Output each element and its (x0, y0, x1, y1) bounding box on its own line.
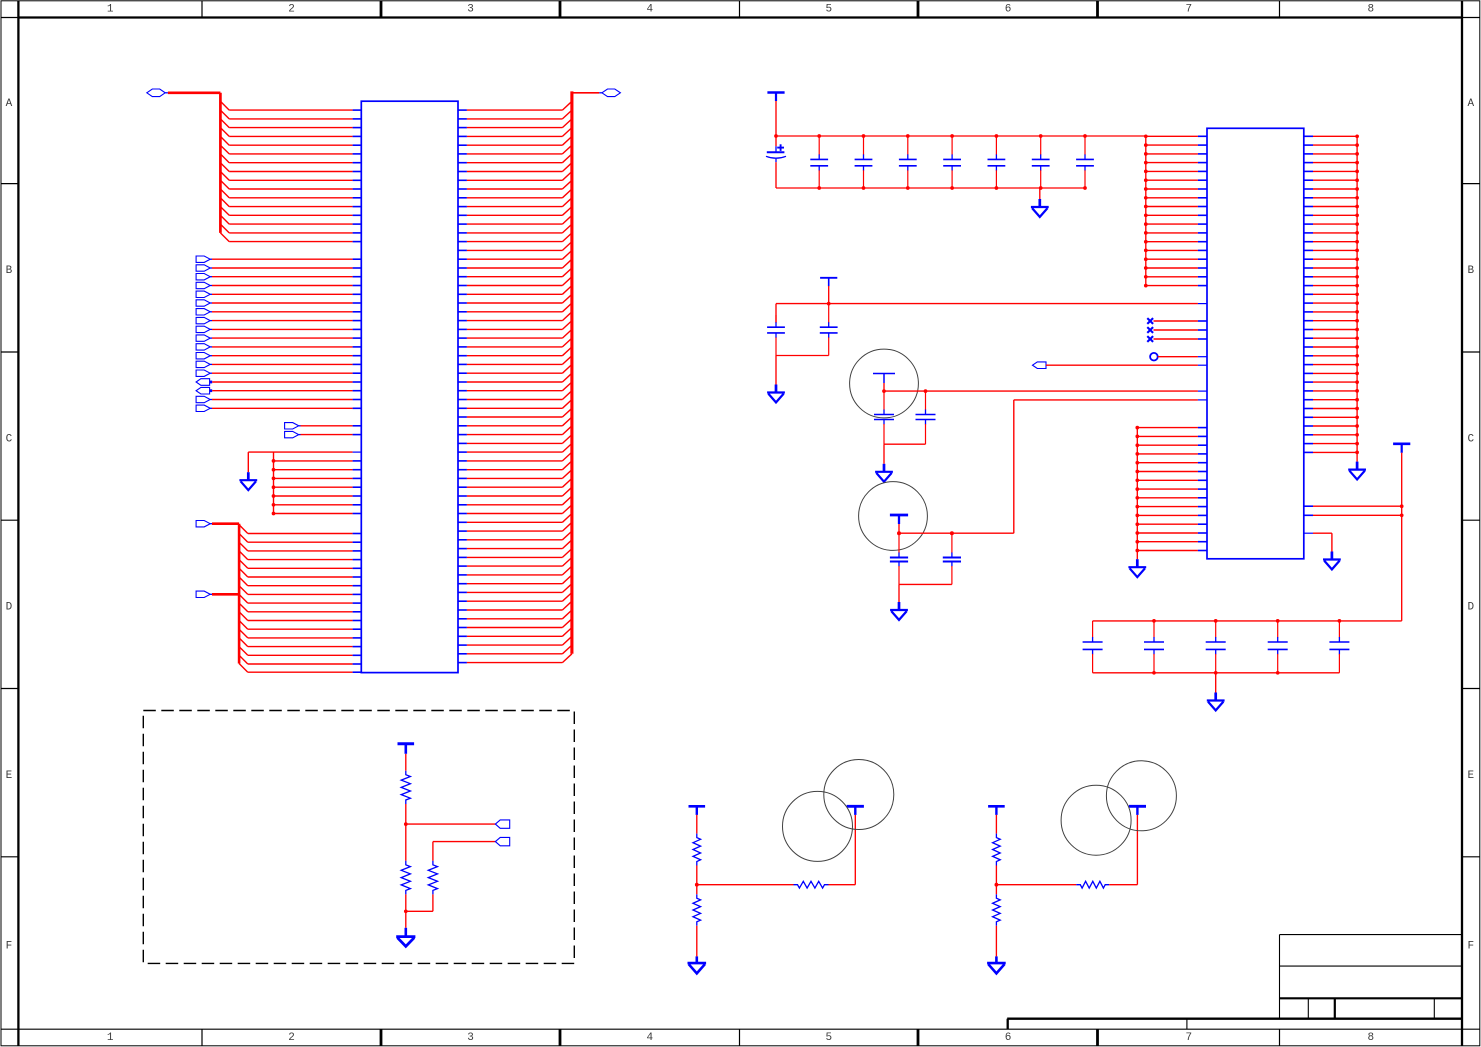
port arrow A (495, 820, 509, 828)
node wires (695, 866, 794, 887)
svg-text:B: B (1467, 265, 1474, 277)
wire from Q2 net (1014, 400, 1207, 533)
resistor R2 (401, 861, 410, 895)
svg-text:D: D (1467, 602, 1474, 614)
svg-text:E: E (6, 770, 13, 782)
ground (688, 956, 707, 973)
svg-text:5: 5 (825, 4, 832, 16)
input port bottom A (196, 521, 239, 527)
no-connect circle wire (1150, 353, 1207, 361)
resistor upper (693, 834, 701, 866)
U1 left pin wires group1 (220, 101, 361, 241)
ground (1207, 693, 1225, 711)
power T inside Q1 (873, 374, 895, 384)
svg-text:8: 8 (1367, 1032, 1374, 1044)
capacitor C9 (767, 315, 785, 356)
transistor circle B (824, 760, 894, 830)
wires to power vertical (1304, 504, 1404, 517)
wire (696, 885, 698, 957)
U1 bottom-left pin wires (239, 525, 361, 672)
bottom capacitor bank rail (1093, 621, 1402, 673)
svg-text:7: 7 (1185, 4, 1192, 16)
svg-text:2: 2 (288, 1032, 295, 1044)
node wires (995, 866, 1077, 887)
transistor Q1 outline (850, 349, 919, 418)
svg-text:4: 4 (646, 4, 653, 16)
input ports group (196, 256, 361, 412)
Q1 node wires (882, 383, 1207, 393)
resistor series (794, 881, 829, 888)
wire to power T (1109, 815, 1137, 885)
U1 ground net wires (248, 452, 361, 515)
mid rail wires (776, 286, 1207, 323)
svg-text:4: 4 (646, 1032, 653, 1044)
transistor circle A (1061, 785, 1131, 855)
svg-text:1: 1 (107, 4, 114, 16)
power rail T symbol (767, 93, 784, 102)
wire (995, 815, 997, 834)
transistor circle B (1106, 761, 1176, 831)
ground (875, 464, 893, 482)
capacitor C13 (890, 533, 908, 584)
no-connect X wires (1147, 318, 1207, 342)
power T symbol mid (820, 278, 837, 287)
svg-text:D: D (6, 602, 13, 614)
svg-text:2: 2 (288, 4, 295, 16)
power T (398, 744, 415, 754)
wire to ground (1215, 673, 1217, 693)
Q2 node wires (897, 524, 1014, 535)
svg-text:B: B (6, 265, 13, 277)
transistor Q2 outline (859, 482, 928, 551)
ground (1348, 462, 1366, 480)
svg-text:3: 3 (467, 4, 474, 16)
ground (1031, 188, 1049, 217)
svg-text:3: 3 (467, 1032, 474, 1044)
ground (890, 602, 908, 620)
wire (404, 804, 495, 826)
power T source (988, 806, 1005, 815)
wires to ground (404, 894, 433, 927)
resistor R1 (401, 771, 410, 804)
U1 bottom-left bus (238, 524, 241, 664)
ground (1323, 552, 1341, 570)
transistor circle A (783, 791, 853, 861)
power T load (1129, 806, 1146, 815)
svg-text:7: 7 (1185, 1032, 1192, 1044)
resistor R3 (428, 861, 437, 895)
U2 right pin wires (1304, 134, 1359, 454)
input port bottom B (196, 591, 239, 597)
revision strip (1007, 1019, 1462, 1029)
power T source (689, 806, 706, 815)
title block (1280, 935, 1463, 1019)
power T load (847, 806, 864, 815)
svg-text:A: A (6, 98, 13, 110)
power rail wire (776, 101, 1146, 136)
resistor lower (993, 894, 1001, 926)
power T right (1393, 444, 1410, 453)
power T inside Q2 (890, 515, 908, 524)
zone numbers top (107, 4, 1374, 16)
U1 right pin wires to bus (458, 101, 572, 662)
svg-text:6: 6 (1005, 1032, 1012, 1044)
row letters right (1467, 98, 1474, 952)
dashed option box (143, 711, 574, 964)
electrolytic capacitor C1 (766, 134, 786, 188)
U2 bottom-left bus and wires (1135, 426, 1207, 559)
resistor series (1076, 881, 1109, 888)
svg-text:8: 8 (1367, 4, 1374, 16)
capacitor C14 (943, 533, 961, 584)
wire (776, 355, 829, 357)
ground (396, 928, 415, 947)
net label oval left (147, 89, 165, 97)
port arrow B (495, 837, 509, 845)
wire (433, 842, 496, 861)
capacitor C10 (820, 304, 838, 356)
svg-text:A: A (1467, 98, 1474, 110)
wire to ground lower right (1304, 533, 1332, 551)
wire (696, 815, 698, 834)
zone numbers bottom (107, 1032, 1374, 1044)
svg-text:F: F (6, 940, 13, 952)
decoupling capacitor bank (776, 134, 1094, 190)
net label oval right (602, 89, 621, 97)
IC U1 (361, 101, 458, 672)
resistor upper (993, 834, 1001, 866)
wire (405, 754, 407, 771)
wire (405, 824, 407, 861)
capacitor C11 (874, 391, 894, 444)
row letters left (6, 98, 13, 952)
input ports pair (285, 423, 362, 438)
wire (884, 444, 926, 464)
svg-text:C: C (1467, 433, 1474, 445)
vertical power wire (1401, 453, 1403, 621)
IC U2 (1207, 128, 1304, 559)
U1 right bus (572, 91, 602, 653)
svg-text:F: F (1467, 940, 1474, 952)
svg-text:E: E (1467, 770, 1474, 782)
U2 right bus (1356, 136, 1358, 461)
bottom capacitor bank (1083, 619, 1350, 675)
ground (239, 472, 257, 490)
svg-text:6: 6 (1005, 4, 1012, 16)
ground (767, 385, 785, 403)
ground (1128, 559, 1146, 577)
capacitor C12 (916, 391, 936, 444)
svg-text:C: C (6, 433, 13, 445)
port arrow left mid (1033, 362, 1208, 369)
resistor lower (693, 894, 701, 926)
wire (899, 584, 952, 602)
U1 left bus from net label (165, 93, 220, 233)
svg-text:5: 5 (825, 1032, 832, 1044)
ground (987, 956, 1006, 973)
wire (995, 885, 997, 957)
svg-text:1: 1 (107, 1032, 114, 1044)
wire to power T (829, 815, 856, 885)
U2 left power bus (1144, 134, 1207, 287)
wire to ground (775, 356, 777, 385)
